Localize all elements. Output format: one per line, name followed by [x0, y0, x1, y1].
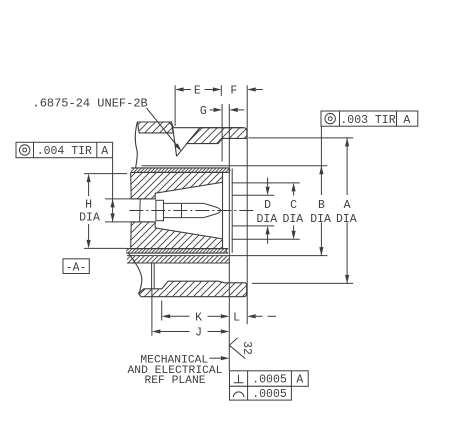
svg-text:B: B — [318, 199, 325, 212]
body lower band bottom edge — [127, 262, 230, 264]
thread relief V-groove left line — [172, 124, 176, 156]
feature control frame .004 TIR A — [16, 142, 113, 157]
svg-text:DIA: DIA — [256, 213, 277, 226]
body top chamfer — [169, 122, 175, 128]
body upper main threaded band — [187, 128, 247, 144]
svg-text:E: E — [194, 85, 201, 98]
concentricity symbol — [20, 145, 30, 155]
outer conductor sleeve lower wall — [126, 249, 228, 254]
rear cavity wall lines — [151, 263, 153, 289]
feature control frame profile .0005 — [230, 386, 292, 400]
dimension D DIA — [232, 194, 274, 196]
dielectric bore line upper — [105, 198, 156, 200]
outer conductor sleeve upper wall — [131, 168, 230, 173]
dielectric upper section — [131, 172, 223, 199]
svg-text:DIA: DIA — [79, 212, 100, 225]
dimension A DIA — [249, 137, 354, 139]
svg-text:F: F — [230, 85, 237, 98]
dimension C DIA — [232, 182, 300, 184]
svg-text:L: L — [233, 312, 240, 325]
svg-text:32: 32 — [240, 341, 253, 355]
centerline — [129, 210, 253, 212]
dimension H DIA extension top — [84, 173, 127, 175]
body bore line lower (B dia extension) — [127, 255, 327, 257]
dielectric front face — [222, 172, 224, 248]
svg-text:.003 TIR: .003 TIR — [340, 114, 395, 127]
svg-text:A: A — [101, 145, 108, 158]
dimension B DIA — [320, 126, 322, 195]
datum reference plane line — [228, 104, 230, 371]
svg-text:J: J — [195, 327, 202, 340]
svg-text:.004 TIR: .004 TIR — [37, 145, 92, 158]
dielectric bore line lower — [105, 221, 156, 223]
mounting flange lower section — [139, 281, 247, 297]
svg-text:.0005: .0005 — [252, 388, 287, 401]
body top edge — [174, 127, 243, 129]
svg-text:-A-: -A- — [66, 262, 87, 275]
extension line E/F middle — [220, 85, 222, 96]
dimension H DIA — [87, 174, 91, 183]
svg-text:G: G — [200, 105, 207, 118]
body bore line upper (B dia extension) — [142, 165, 328, 167]
body break line upper left — [135, 122, 137, 168]
thread relief V-groove right line — [177, 127, 201, 156]
dielectric pocket rear edge — [139, 199, 142, 222]
extension line G left (dielectric face) — [221, 104, 223, 162]
extension line F right / flange face — [246, 85, 248, 324]
extension line E left — [174, 85, 176, 126]
svg-text:D: D — [264, 199, 271, 212]
concentricity symbol — [325, 113, 335, 123]
datum symbol -A- — [63, 259, 89, 274]
svg-text:DIA: DIA — [336, 213, 357, 226]
svg-text:.0005: .0005 — [252, 374, 287, 387]
leader to ref plane — [210, 357, 221, 359]
body bore front face — [231, 169, 233, 253]
center contact collar — [156, 200, 164, 220]
svg-text:.6875-24 UNEF-2B: .6875-24 UNEF-2B — [33, 96, 148, 110]
center contact nose — [204, 203, 221, 217]
body break line lower left — [129, 253, 142, 294]
dimension K — [161, 301, 163, 321]
body upper-left thread block — [137, 122, 173, 133]
svg-text:DIA: DIA — [310, 213, 331, 226]
svg-text:K: K — [195, 312, 202, 325]
svg-text:A: A — [296, 374, 303, 387]
center contact barrel — [164, 203, 204, 217]
surface finish symbol 32 — [229, 338, 245, 359]
svg-text:REF PLANE: REF PLANE — [144, 375, 205, 387]
dimension J — [151, 289, 153, 336]
svg-text:A: A — [344, 199, 351, 212]
svg-text:DIA: DIA — [282, 213, 303, 226]
svg-text:H: H — [85, 199, 92, 212]
body lower band — [127, 256, 230, 263]
dimension H DIA extension bottom — [84, 247, 127, 249]
bore diameter dimension with FCF leader — [112, 158, 114, 222]
svg-text:A: A — [403, 114, 410, 127]
svg-text:C: C — [290, 199, 297, 212]
dimension E — [175, 87, 184, 91]
dielectric lower section — [131, 222, 223, 249]
feature control frame .003 TIR A — [321, 111, 418, 126]
feature control frame perpendicularity .0005 A — [230, 371, 309, 387]
